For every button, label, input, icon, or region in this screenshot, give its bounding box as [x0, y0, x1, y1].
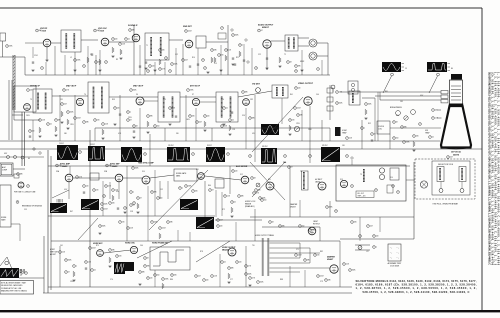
svg-text:220: 220	[376, 236, 379, 238]
svg-text:7: 7	[120, 222, 121, 224]
svg-text:8: 8	[305, 260, 306, 262]
svg-text:100K: 100K	[104, 204, 108, 206]
svg-text:R64: R64	[208, 185, 211, 187]
svg-text:9: 9	[133, 168, 134, 170]
svg-text:2: 2	[66, 272, 67, 274]
svg-text:R67: R67	[70, 211, 73, 213]
svg-text:4: 4	[96, 62, 97, 64]
svg-text:.01: .01	[224, 262, 226, 264]
svg-text:220: 220	[30, 90, 33, 92]
svg-text:R82: R82	[320, 251, 323, 253]
svg-text:C12: C12	[175, 54, 178, 56]
svg-text:120: 120	[235, 171, 238, 173]
svg-text:33K: 33K	[86, 122, 89, 124]
svg-text:4: 4	[77, 177, 78, 179]
svg-text:HORIZ: HORIZ	[50, 249, 55, 251]
svg-text:1: 1	[352, 222, 353, 224]
svg-text:7: 7	[259, 30, 260, 32]
svg-text:68K: 68K	[132, 30, 135, 32]
svg-text:39K: 39K	[258, 190, 261, 192]
svg-text:7: 7	[188, 90, 189, 92]
svg-text:330: 330	[176, 133, 179, 135]
svg-text:7: 7	[110, 250, 111, 252]
svg-text:C77: C77	[230, 279, 233, 281]
svg-text:7: 7	[256, 190, 257, 192]
svg-text:8: 8	[228, 154, 229, 156]
svg-text:6184, 6185, 6186, 6187 (Ch. 52: 6184, 6185, 6186, 6187 (Ch. 528.38100, 1…	[356, 283, 477, 287]
svg-text:4TH VID IF: 4TH VID IF	[190, 85, 201, 88]
svg-text:270: 270	[221, 55, 224, 57]
svg-text:8: 8	[290, 120, 291, 122]
svg-text:4: 4	[7, 46, 8, 48]
svg-text:.047: .047	[370, 226, 373, 228]
svg-text:6: 6	[145, 154, 146, 156]
svg-text:2: 2	[131, 90, 132, 92]
svg-text:.1: .1	[242, 45, 243, 47]
svg-text:39K: 39K	[282, 226, 285, 228]
svg-text:10K: 10K	[162, 50, 165, 52]
svg-text:3: 3	[212, 50, 213, 52]
svg-text:8: 8	[160, 69, 161, 71]
svg-text:5: 5	[270, 222, 271, 224]
svg-text:4.7K: 4.7K	[108, 186, 111, 188]
svg-text:3: 3	[80, 152, 81, 154]
svg-text:8: 8	[66, 260, 67, 262]
svg-text:DEFLECTION YOKE: DEFLECTION YOKE	[438, 164, 453, 166]
svg-text:470: 470	[252, 133, 255, 135]
svg-text:6: 6	[222, 126, 223, 128]
svg-text:6: 6	[233, 171, 234, 173]
svg-text:2.2K: 2.2K	[228, 50, 231, 52]
svg-text:120: 120	[32, 131, 35, 133]
svg-text:T2: T2	[284, 54, 286, 56]
svg-text:5: 5	[362, 128, 363, 130]
svg-text:C85: C85	[400, 101, 403, 103]
svg-text:4: 4	[318, 276, 319, 278]
svg-text:R91: R91	[385, 91, 388, 93]
svg-text:39K: 39K	[150, 116, 153, 118]
svg-text:9: 9	[26, 273, 27, 275]
svg-text:2: 2	[218, 220, 219, 222]
svg-text:8: 8	[134, 126, 135, 128]
svg-text:2.2K: 2.2K	[62, 252, 65, 254]
svg-text:C15: C15	[214, 63, 217, 65]
svg-text:9: 9	[296, 88, 297, 90]
svg-text:.0047: .0047	[104, 209, 108, 211]
svg-text:2: 2	[172, 64, 173, 66]
svg-text:7: 7	[102, 209, 103, 211]
svg-text:2: 2	[28, 186, 29, 188]
svg-text:3: 3	[131, 205, 132, 207]
svg-text:.1: .1	[76, 266, 77, 268]
svg-text:68K: 68K	[142, 272, 145, 274]
svg-text:1.5K: 1.5K	[214, 276, 217, 278]
svg-text:C61: C61	[60, 245, 63, 247]
svg-text:1: 1	[37, 30, 38, 32]
svg-text:1K: 1K	[396, 122, 398, 124]
svg-text:3: 3	[113, 39, 114, 41]
svg-text:8: 8	[64, 90, 65, 92]
svg-text:(Ch. 528.38100, 1, 2, 528.3820: (Ch. 528.38100, 1, 2, 528.38200, 1, 2, 3…	[491, 72, 494, 266]
svg-text:3: 3	[300, 226, 301, 228]
svg-text:V12: V12	[240, 174, 243, 176]
svg-text:1: 1	[239, 196, 240, 198]
svg-text:5: 5	[84, 66, 85, 68]
svg-text:560K: 560K	[352, 270, 356, 272]
svg-text:560K: 560K	[235, 35, 239, 37]
svg-text:5: 5	[168, 222, 169, 224]
svg-text:9: 9	[203, 60, 204, 62]
svg-text:3: 3	[148, 71, 149, 73]
svg-text:2: 2	[102, 204, 103, 206]
svg-text:150: 150	[160, 198, 163, 200]
svg-text:100K: 100K	[248, 274, 252, 276]
svg-text:1: 1	[92, 270, 93, 272]
svg-text:V14: V14	[390, 177, 393, 179]
svg-text:VERT SIZE: VERT SIZE	[50, 251, 58, 253]
svg-text:9: 9	[126, 39, 127, 41]
svg-text:AGC KEYER: AGC KEYER	[236, 165, 248, 168]
svg-text:1ST VID IF: 1ST VID IF	[30, 86, 41, 88]
svg-text:3: 3	[100, 226, 101, 228]
svg-text:15: 15	[405, 68, 407, 70]
svg-text:3: 3	[252, 178, 253, 180]
svg-text:2: 2	[337, 92, 338, 94]
svg-text:TIME SYNC COMP: TIME SYNC COMP	[138, 163, 154, 165]
svg-text:4: 4	[125, 208, 126, 210]
svg-text:R75: R75	[96, 245, 99, 247]
svg-text:95V P-P: 95V P-P	[322, 145, 328, 147]
svg-text:TRPL - DG: TRPL - DG	[358, 196, 367, 198]
svg-text:1K: 1K	[147, 258, 149, 260]
svg-text:1K: 1K	[290, 62, 292, 64]
svg-text:.047: .047	[199, 122, 202, 124]
svg-text:C64: C64	[140, 245, 143, 247]
svg-text:470K: 470K	[77, 60, 81, 62]
svg-text:60: 60	[28, 158, 30, 160]
svg-text:8: 8	[17, 202, 18, 204]
svg-text:HORIZ AFC: HORIZ AFC	[93, 242, 103, 245]
svg-text:.047: .047	[97, 30, 100, 32]
svg-text:5: 5	[68, 112, 69, 114]
svg-text:4.7K: 4.7K	[79, 177, 82, 179]
svg-text:5: 5	[288, 62, 289, 64]
svg-text:.047: .047	[64, 104, 67, 106]
svg-text:5: 5	[222, 262, 223, 264]
svg-text:33K: 33K	[170, 222, 173, 224]
svg-text:1.5K: 1.5K	[88, 262, 91, 264]
svg-text:9: 9	[190, 116, 191, 118]
svg-text:5: 5	[352, 186, 353, 188]
svg-text:3: 3	[250, 118, 251, 120]
svg-text:30V P-P: 30V P-P	[262, 146, 268, 148]
svg-text:C7: C7	[90, 54, 92, 56]
svg-text:6BE6: 6BE6	[176, 176, 180, 178]
svg-text:1.5K: 1.5K	[42, 120, 45, 122]
svg-text:COMP: COMP	[2, 170, 8, 172]
svg-text:220: 220	[115, 39, 118, 41]
svg-text:4: 4	[130, 30, 131, 32]
svg-text:.0047: .0047	[320, 276, 324, 278]
svg-text:1K: 1K	[254, 178, 256, 180]
svg-text:3: 3	[315, 255, 316, 257]
svg-text:9: 9	[433, 118, 434, 120]
svg-text:.01: .01	[432, 137, 434, 139]
svg-text:470K: 470K	[9, 46, 13, 48]
svg-text:HV - FLY: HV - FLY	[358, 193, 365, 195]
svg-text:R41: R41	[290, 94, 293, 96]
svg-text:R86: R86	[170, 279, 173, 281]
svg-text:470K: 470K	[406, 142, 410, 144]
svg-text:C31: C31	[60, 99, 63, 101]
svg-text:8: 8	[152, 192, 153, 194]
svg-text:41TV8 10A: 41TV8 10A	[451, 151, 461, 154]
svg-text:6: 6	[344, 264, 345, 266]
svg-text:9: 9	[115, 108, 116, 110]
svg-text:5: 5	[243, 92, 244, 94]
svg-text:8V P-P: 8V P-P	[207, 145, 212, 147]
svg-text:39K: 39K	[404, 127, 407, 129]
svg-text:1: 1	[296, 255, 297, 257]
svg-text:6: 6	[246, 274, 247, 276]
svg-text:3: 3	[298, 115, 299, 117]
svg-text:4: 4	[448, 157, 449, 159]
svg-text:1.5K: 1.5K	[224, 126, 227, 128]
svg-text:33K: 33K	[112, 250, 115, 252]
svg-text:4.7K: 4.7K	[248, 266, 251, 268]
svg-text:HORIZ OUTPUT TRANS: HORIZ OUTPUT TRANS	[255, 234, 275, 237]
svg-text:1K: 1K	[133, 205, 135, 207]
svg-text:100K: 100K	[70, 112, 74, 114]
svg-text:9: 9	[229, 268, 230, 270]
svg-text:6: 6	[138, 198, 139, 200]
svg-text:1, 2, 528.45600, 1, 2, 528.438: 1, 2, 528.45600, 1, 2, 528.43800, 1, 2, …	[497, 72, 500, 266]
svg-text:1B3GT: 1B3GT	[313, 221, 318, 223]
svg-text:220: 220	[207, 116, 210, 118]
svg-text:1.5K: 1.5K	[172, 108, 175, 110]
svg-text:.0047: .0047	[188, 31, 192, 33]
svg-text:10K: 10K	[39, 30, 42, 32]
svg-text:C52: C52	[160, 189, 163, 191]
svg-text:3: 3	[117, 256, 118, 258]
svg-text:2: 2	[210, 190, 211, 192]
svg-text:2: 2	[95, 30, 96, 32]
svg-text:2: 2	[163, 279, 164, 281]
svg-text:47: 47	[261, 30, 263, 32]
svg-text:L2: L2	[70, 57, 72, 59]
svg-text:6: 6	[310, 230, 311, 232]
svg-text:270: 270	[97, 120, 100, 122]
svg-text:T3: T3	[30, 99, 32, 101]
svg-text:.01: .01	[50, 124, 52, 126]
svg-text:6: 6	[186, 31, 187, 33]
svg-text:80: 80	[451, 68, 453, 70]
svg-text:560K: 560K	[368, 104, 372, 106]
svg-text:2.2K: 2.2K	[349, 138, 352, 140]
svg-text:1K: 1K	[272, 222, 274, 224]
svg-text:.0047: .0047	[298, 255, 302, 257]
svg-text:47: 47	[68, 272, 70, 274]
svg-text:7: 7	[347, 138, 348, 140]
svg-text:7: 7	[120, 44, 121, 46]
svg-text:.047: .047	[198, 276, 201, 278]
svg-text:2: 2	[104, 196, 105, 198]
svg-text:2: 2	[90, 248, 91, 250]
svg-text:9: 9	[374, 247, 375, 249]
svg-text:V6: V6	[136, 94, 138, 96]
svg-text:C55: C55	[24, 209, 27, 211]
svg-text:150: 150	[157, 275, 160, 277]
svg-text:3: 3	[327, 207, 328, 209]
svg-text:R78: R78	[200, 251, 203, 253]
svg-text:V13: V13	[340, 179, 343, 181]
svg-text:6W4GT: 6W4GT	[290, 206, 296, 208]
svg-text:6.3V: 6.3V	[4, 153, 7, 155]
svg-text:3: 3	[402, 127, 403, 129]
svg-text:SND DET: SND DET	[183, 26, 193, 28]
svg-text:9: 9	[398, 192, 399, 194]
svg-text:7: 7	[110, 203, 111, 205]
svg-text:2: 2	[193, 154, 194, 156]
svg-text:6: 6	[226, 50, 227, 52]
svg-text:8: 8	[180, 188, 181, 190]
svg-text:33K: 33K	[214, 50, 217, 52]
svg-text:HORIZ PHASE DET: HORIZ PHASE DET	[152, 242, 169, 245]
svg-text:.0047: .0047	[162, 228, 166, 230]
svg-text:33K: 33K	[109, 165, 112, 167]
svg-text:120: 120	[298, 88, 301, 90]
svg-text:4: 4	[237, 262, 238, 264]
svg-text:270: 270	[317, 255, 320, 257]
svg-text:V7: V7	[192, 94, 194, 96]
svg-text:8: 8	[225, 196, 226, 198]
svg-text:470K: 470K	[312, 230, 316, 232]
svg-text:220: 220	[220, 226, 223, 228]
svg-text:2: 2	[420, 124, 421, 126]
svg-text:68K: 68K	[245, 92, 248, 94]
svg-text:1: 1	[295, 108, 296, 110]
svg-text:9: 9	[145, 266, 146, 268]
svg-text:2: 2	[158, 198, 159, 200]
svg-text:68K: 68K	[241, 196, 244, 198]
svg-text:1: 1	[84, 186, 85, 188]
svg-text:COIL: COIL	[378, 129, 382, 131]
svg-text:R61: R61	[268, 179, 271, 181]
svg-text:R14: R14	[192, 57, 195, 59]
svg-text:6: 6	[394, 122, 395, 124]
svg-text:1: 1	[212, 276, 213, 278]
svg-text:.0047: .0047	[297, 108, 301, 110]
svg-text:SOUND IF: SOUND IF	[128, 25, 138, 27]
svg-text:2.2K: 2.2K	[105, 124, 108, 126]
svg-text:100K: 100K	[174, 64, 178, 66]
svg-text:120: 120	[86, 186, 89, 188]
svg-text:3: 3	[166, 58, 167, 60]
svg-text:4: 4	[260, 198, 261, 200]
svg-text:470K: 470K	[188, 186, 192, 188]
svg-text:39K: 39K	[154, 192, 157, 194]
svg-text:9: 9	[183, 60, 184, 62]
svg-text:1: 1	[103, 124, 104, 126]
svg-text:1B3GT: 1B3GT	[315, 181, 320, 183]
svg-text:150: 150	[157, 126, 160, 128]
svg-text:R72: R72	[222, 209, 225, 211]
svg-text:4: 4	[360, 236, 361, 238]
svg-text:9: 9	[152, 222, 153, 224]
svg-text:5: 5	[155, 126, 156, 128]
svg-text:1: 1	[219, 55, 220, 57]
svg-text:.1: .1	[364, 128, 365, 130]
svg-text:6: 6	[86, 262, 87, 264]
svg-text:6: 6	[128, 112, 129, 114]
svg-text:220: 220	[435, 110, 438, 112]
svg-text:L8: L8	[352, 99, 354, 101]
svg-text:68K: 68K	[231, 268, 234, 270]
svg-text:150: 150	[264, 200, 267, 202]
svg-text:4.7K: 4.7K	[256, 193, 259, 195]
svg-text:9: 9	[296, 66, 297, 68]
svg-text:7: 7	[258, 282, 259, 284]
svg-text:6: 6	[106, 186, 107, 188]
svg-text:47: 47	[130, 120, 132, 122]
svg-text:1: 1	[433, 110, 434, 112]
svg-text:4: 4	[289, 167, 290, 169]
svg-text:7: 7	[204, 280, 205, 282]
svg-text:470K: 470K	[190, 90, 194, 92]
svg-text:10K: 10K	[192, 116, 195, 118]
svg-text:2: 2	[205, 68, 206, 70]
svg-text:7: 7	[84, 122, 85, 124]
svg-text:9: 9	[326, 280, 327, 282]
svg-text:C71: C71	[296, 249, 299, 251]
svg-text:5: 5	[140, 272, 141, 274]
svg-text:5: 5	[150, 66, 151, 68]
svg-text:V10: V10	[142, 171, 145, 173]
svg-text:560K: 560K	[68, 260, 72, 262]
svg-text:6W4GT: 6W4GT	[327, 258, 334, 261]
svg-text:47: 47	[212, 190, 214, 192]
svg-text:.1: .1	[182, 188, 183, 190]
svg-text:3: 3	[196, 276, 197, 278]
svg-text:5: 5	[347, 156, 348, 158]
svg-text:33K: 33K	[307, 260, 310, 262]
svg-text:470K: 470K	[165, 279, 169, 281]
svg-text:1: 1	[42, 68, 43, 70]
svg-text:7: 7	[224, 108, 225, 110]
svg-text:1.5K: 1.5K	[227, 196, 230, 198]
svg-text:T8: T8	[300, 171, 302, 173]
svg-text:VIDEO OUTPUT: VIDEO OUTPUT	[298, 83, 314, 85]
svg-text:470K: 470K	[329, 207, 333, 209]
svg-text:.047: .047	[450, 157, 453, 159]
svg-text:220: 220	[117, 108, 120, 110]
svg-text:25V P-P: 25V P-P	[168, 145, 174, 147]
svg-text:.01: .01	[226, 108, 228, 110]
svg-text:6: 6	[40, 120, 41, 122]
svg-text:.1: .1	[133, 192, 134, 194]
svg-text:C58: C58	[130, 211, 133, 213]
svg-text:9: 9	[280, 226, 281, 228]
svg-text:.01: .01	[94, 270, 96, 272]
svg-text:2: 2	[262, 200, 263, 202]
svg-text:4: 4	[337, 103, 338, 105]
svg-text:8: 8	[376, 190, 377, 192]
svg-text:L12: L12	[366, 251, 369, 253]
svg-text:2: 2	[160, 228, 161, 230]
svg-text:1: 1	[60, 252, 61, 254]
svg-text:T6: T6	[222, 99, 224, 101]
svg-text:6: 6	[107, 165, 108, 167]
